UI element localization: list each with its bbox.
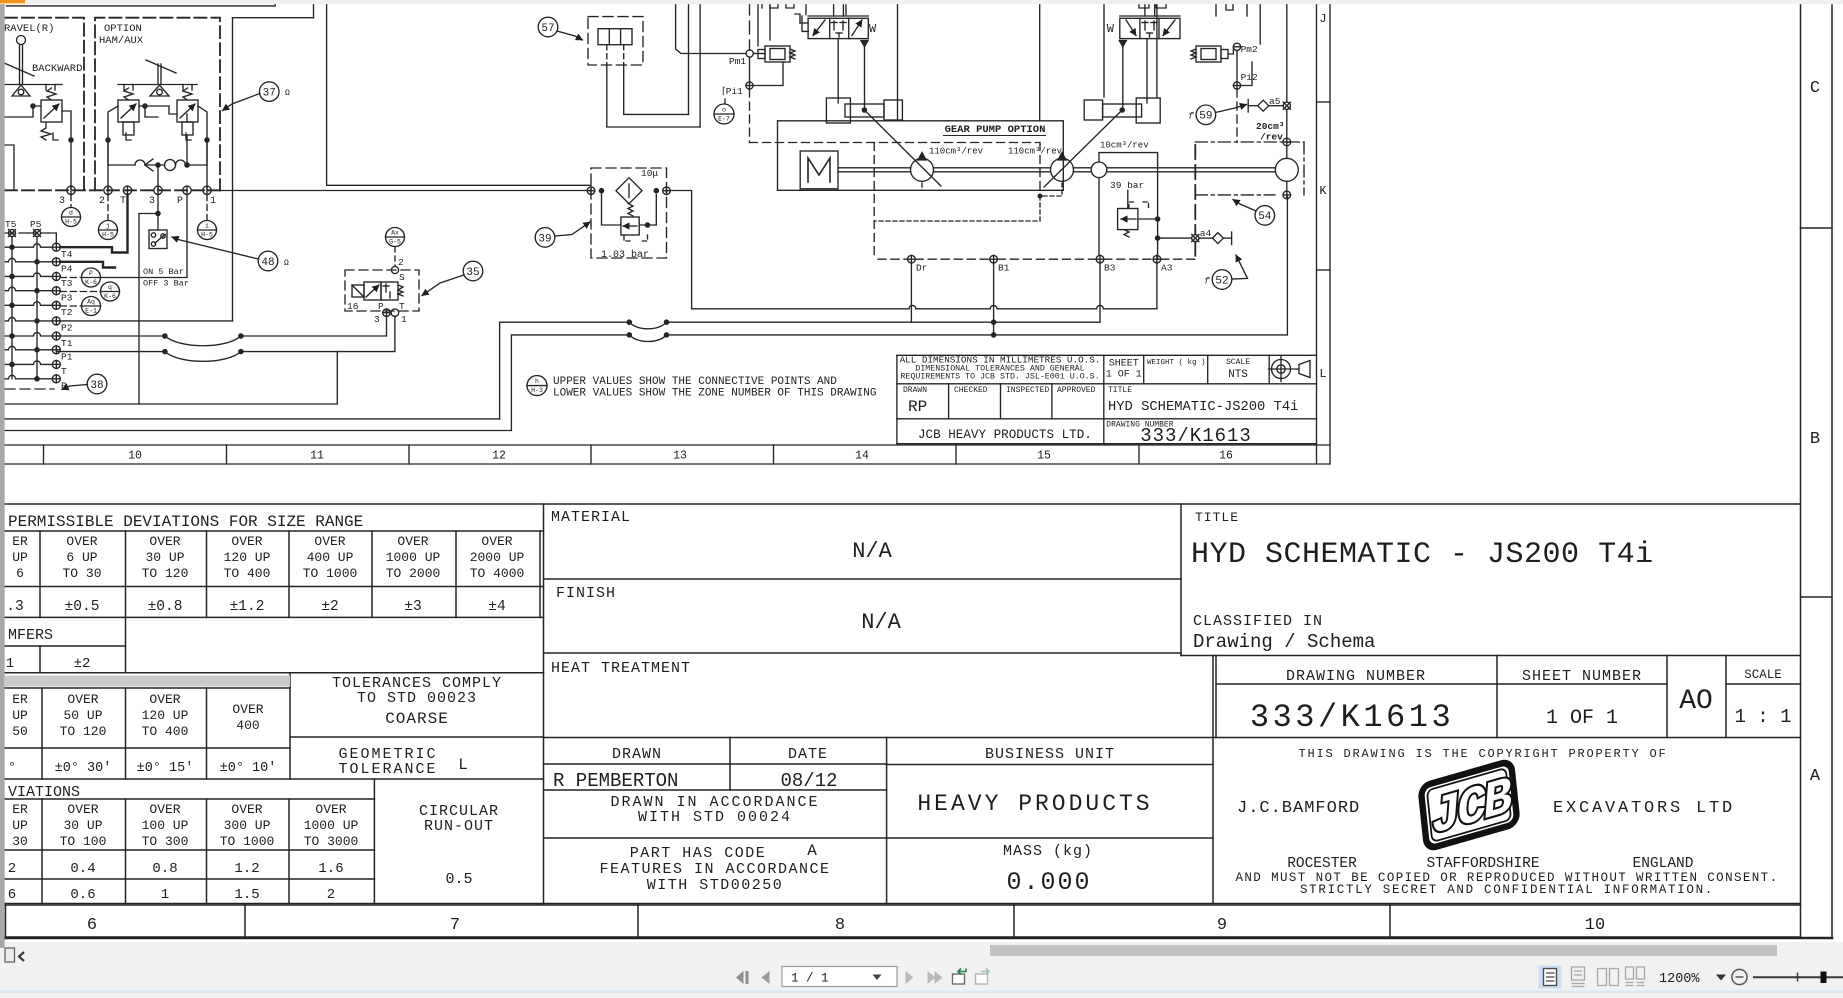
svg-text:±3: ±3 xyxy=(404,599,421,615)
port T xyxy=(123,186,131,194)
svg-text:FINISH: FINISH xyxy=(556,585,616,602)
svg-text:H-5: H-5 xyxy=(201,232,213,239)
svg-text:q: q xyxy=(108,284,112,291)
nav next xyxy=(906,971,914,984)
svg-text:E-7: E-7 xyxy=(718,116,730,123)
svg-text:LOWER VALUES SHOW THE ZONE NUM: LOWER VALUES SHOW THE ZONE NUMBER OF THI… xyxy=(553,388,876,400)
svg-text:G-5: G-5 xyxy=(389,239,401,246)
svg-text:16: 16 xyxy=(347,301,359,312)
svg-text:VIATIONS: VIATIONS xyxy=(8,784,80,801)
valve2 upper right fragments xyxy=(1216,2,1247,16)
port 2 xyxy=(104,186,112,194)
wire Pi2 elbow xyxy=(1241,62,1252,86)
swash link 1 xyxy=(864,110,941,186)
port 1 xyxy=(203,186,211,194)
leads below 57 block xyxy=(606,45,608,65)
svg-text:P: P xyxy=(61,381,67,392)
svg-text:0.6: 0.6 xyxy=(70,887,95,903)
wire relief to pump3 line xyxy=(1138,218,1158,220)
svg-text:B1: B1 xyxy=(998,263,1010,274)
A0 zone tick C|B xyxy=(1801,227,1833,229)
svg-text:3: 3 xyxy=(59,196,65,207)
dashed pilot line across xyxy=(750,142,1041,144)
svg-text:TITLE: TITLE xyxy=(1108,386,1132,395)
rail junction dots xyxy=(10,245,14,249)
valve2 top fragments xyxy=(1139,0,1166,8)
svg-text:TO STD 00023: TO STD 00023 xyxy=(357,690,477,707)
svg-text:1000 UP: 1000 UP xyxy=(304,818,359,833)
svg-text:±4: ±4 xyxy=(488,599,505,615)
svg-text:37: 37 xyxy=(263,88,276,100)
svg-text:20cm³: 20cm³ xyxy=(1256,121,1285,132)
svg-text:R PEMBERTON: R PEMBERTON xyxy=(553,770,678,792)
svg-text:j: j xyxy=(106,223,110,230)
lever OPTION xyxy=(146,60,176,73)
port Pm1 xyxy=(746,50,753,57)
svg-text:P1: P1 xyxy=(61,352,73,363)
charge pump circle xyxy=(1275,158,1298,181)
svg-text:OVER: OVER xyxy=(397,534,428,549)
svg-text:TITLE: TITLE xyxy=(1195,510,1239,525)
solenoid block 57 dashed box xyxy=(588,17,643,65)
callout circle 54 xyxy=(1255,206,1275,226)
svg-text:12: 12 xyxy=(492,450,506,463)
svg-text:TO 120: TO 120 xyxy=(142,566,189,581)
svg-text:10μ: 10μ xyxy=(641,168,658,179)
svg-text:ER: ER xyxy=(12,534,28,549)
svg-text:WITH STD 00024: WITH STD 00024 xyxy=(638,809,792,826)
charge pump port bottom xyxy=(1283,191,1291,199)
wire: P1 line to valve35 T xyxy=(56,351,165,353)
svg-text:57: 57 xyxy=(541,23,554,35)
svg-text:SHEET NUMBER: SHEET NUMBER xyxy=(1522,668,1642,685)
wire valve2 pilot to Pm2 xyxy=(1228,47,1233,54)
svg-text:OVER: OVER xyxy=(481,534,512,549)
schematic title block outline xyxy=(897,354,1317,356)
svg-text:±2: ±2 xyxy=(321,599,338,615)
svg-text:TO 1000: TO 1000 xyxy=(303,566,358,581)
svg-text:OVER: OVER xyxy=(149,692,180,707)
gear pump option box xyxy=(778,121,1064,191)
filter port left xyxy=(587,187,595,195)
svg-text:Pm1: Pm1 xyxy=(729,56,746,67)
svg-text:TO 120: TO 120 xyxy=(60,724,107,739)
svg-text:PERMISSIBLE DEVIATIONS FOR SIZ: PERMISSIBLE DEVIATIONS FOR SIZE RANGE xyxy=(8,513,363,531)
svg-text:110cm³/rev: 110cm³/rev xyxy=(1008,147,1063,157)
header column lines table1 xyxy=(39,531,41,617)
svg-text:1: 1 xyxy=(161,887,169,903)
svg-text:A: A xyxy=(1810,767,1821,786)
dashed box TRAVEL(R) xyxy=(5,18,84,191)
svg-text:EXCAVATORS LTD: EXCAVATORS LTD xyxy=(1553,799,1735,818)
table2 column lines xyxy=(41,688,43,779)
svg-text:1200%: 1200% xyxy=(1659,972,1700,987)
dashed pilot line Pi1 down xyxy=(749,89,751,142)
manifold rail T5 xyxy=(11,237,13,379)
svg-text:OVER: OVER xyxy=(67,692,98,707)
nav prev xyxy=(762,971,770,984)
svg-text:11: 11 xyxy=(310,450,324,463)
drawing number band xyxy=(1216,655,1801,657)
svg-text:59: 59 xyxy=(1199,111,1212,123)
svg-text:STAFFORDSHIRE: STAFFORDSHIRE xyxy=(1426,856,1539,872)
pressure switch 48 xyxy=(149,230,167,249)
return loop under 57 block xyxy=(607,65,700,127)
charge pump 20cm3 dash-dot box xyxy=(1195,141,1304,143)
callout circle 38 xyxy=(87,374,107,394)
servo piston 2 xyxy=(1136,98,1160,123)
svg-text:f: f xyxy=(1188,111,1194,122)
svg-text:6 UP: 6 UP xyxy=(66,550,97,565)
next view icon xyxy=(976,974,988,984)
filter diamond xyxy=(616,178,642,204)
svg-text:OPTION: OPTION xyxy=(104,23,142,35)
svg-text:HEAT TREATMENT: HEAT TREATMENT xyxy=(551,660,691,677)
lead to bubble i xyxy=(206,195,208,221)
directional valve 2 xyxy=(1120,18,1180,38)
schematic zone tick J|K xyxy=(1317,101,1331,103)
manifold bottom dashed xyxy=(5,388,54,390)
pump 2 xyxy=(1051,158,1074,181)
schematic content frame right verticals xyxy=(1156,0,1158,97)
svg-text:WITH STD00250: WITH STD00250 xyxy=(647,877,784,894)
svg-text:1 OF 1: 1 OF 1 xyxy=(1546,707,1618,730)
svg-text:.3: .3 xyxy=(6,599,23,615)
svg-text:SCALE: SCALE xyxy=(1226,358,1250,367)
schematic sheet right double border xyxy=(1316,4,1318,464)
svg-text:AO: AO xyxy=(1679,686,1713,717)
svg-text:OVER: OVER xyxy=(149,802,180,817)
pilot line above Pm1 dashed xyxy=(749,2,751,50)
bubble p/K-6 xyxy=(82,268,101,287)
wire: section vertical x=232.5 xyxy=(232,18,234,321)
pressure reducing valve 2 xyxy=(1196,46,1221,62)
nav last xyxy=(928,971,936,984)
svg-text:SHEET: SHEET xyxy=(1109,359,1139,370)
svg-text:16: 16 xyxy=(1219,450,1233,463)
wire port P down to y=277 xyxy=(101,195,188,278)
svg-text:N/A: N/A xyxy=(861,610,901,635)
valve1 top fragments xyxy=(762,2,794,8)
svg-text:REQUIREMENTS TO JCB STD. JSL-E: REQUIREMENTS TO JCB STD. JSL-E001 U.O.S. xyxy=(900,373,1099,382)
port T5 xyxy=(5,232,27,234)
port P5 xyxy=(27,232,48,234)
svg-text:35: 35 xyxy=(466,267,479,279)
svg-text:OVER: OVER xyxy=(315,802,346,817)
svg-text:HEAVY PRODUCTS: HEAVY PRODUCTS xyxy=(917,791,1152,817)
callout circle 57 xyxy=(538,17,558,37)
port A3 xyxy=(1153,255,1161,263)
relief valve 39bar xyxy=(1118,209,1138,230)
supply lines to Pm1 xyxy=(676,0,747,54)
svg-text:⌈Pi1: ⌈Pi1 xyxy=(722,86,743,97)
svg-text:W: W xyxy=(869,22,877,36)
filter bypass relief xyxy=(602,191,621,225)
svg-text:±0.8: ±0.8 xyxy=(148,599,183,615)
svg-text:E-1: E-1 xyxy=(85,308,97,315)
svg-text:CHECKED: CHECKED xyxy=(954,386,988,395)
wire B3 down xyxy=(1099,263,1101,322)
svg-text:0.4: 0.4 xyxy=(70,861,95,877)
svg-text:Dr: Dr xyxy=(916,263,927,274)
pump 1 xyxy=(911,158,934,181)
svg-text:48: 48 xyxy=(261,257,274,269)
valve 35 assembly xyxy=(386,228,405,247)
svg-text:TO 100: TO 100 xyxy=(60,834,107,849)
svg-text:MATERIAL: MATERIAL xyxy=(551,509,631,526)
svg-text:8: 8 xyxy=(835,916,845,935)
port Pi1 xyxy=(746,82,753,89)
svg-text:K-6: K-6 xyxy=(85,279,97,286)
svg-text:TO 4000: TO 4000 xyxy=(470,566,525,581)
svg-text:50 UP: 50 UP xyxy=(63,708,102,723)
svg-text:52: 52 xyxy=(1215,275,1228,287)
heavy wire T4 to port T xyxy=(60,195,127,253)
svg-text:TO 1000: TO 1000 xyxy=(220,834,275,849)
svg-text:1.6: 1.6 xyxy=(318,861,343,877)
svg-text:333/K1613: 333/K1613 xyxy=(1250,699,1454,736)
svg-text:2: 2 xyxy=(398,257,404,268)
svg-text:THIS DRAWING IS THE COPYRIGHT: THIS DRAWING IS THE COPYRIGHT PROPERTY O… xyxy=(1298,747,1667,761)
port 3 xyxy=(154,186,162,194)
svg-text:13: 13 xyxy=(673,450,687,463)
svg-text:FEATURES IN ACCORDANCE: FEATURES IN ACCORDANCE xyxy=(599,861,830,878)
tolerances comply box mid line xyxy=(290,736,544,738)
pump1 drain dashes xyxy=(921,183,923,190)
svg-text:39: 39 xyxy=(538,233,551,245)
svg-text:OVER: OVER xyxy=(66,534,97,549)
svg-text:HYD SCHEMATIC - JS200 T4i: HYD SCHEMATIC - JS200 T4i xyxy=(1191,538,1654,572)
dashed box OPTION HAM/AUX xyxy=(95,18,220,191)
hose hop upper xyxy=(627,320,631,324)
motor M letter xyxy=(808,158,830,182)
pressure reducing valve 1 xyxy=(765,46,790,62)
svg-text:ER: ER xyxy=(12,692,28,707)
svg-text:SCALE: SCALE xyxy=(1744,668,1782,682)
svg-text:ER: ER xyxy=(12,802,28,817)
svg-text:T1: T1 xyxy=(61,338,73,349)
bubble j/H-5 xyxy=(99,221,118,240)
table3 column lines xyxy=(41,799,43,904)
option pilot valve left xyxy=(118,100,139,122)
orifice a4 xyxy=(1192,235,1199,242)
svg-text:MFERS: MFERS xyxy=(8,627,53,644)
callout circle 48 xyxy=(258,251,278,271)
svg-text:6: 6 xyxy=(16,566,24,581)
svg-text:39 bar: 39 bar xyxy=(1110,180,1144,191)
svg-text:RP: RP xyxy=(908,398,927,416)
svg-text:±0° 10': ±0° 10' xyxy=(220,761,277,776)
svg-text:°: ° xyxy=(8,760,16,776)
spring travel valve xyxy=(47,88,56,100)
svg-text:COARSE: COARSE xyxy=(385,710,449,728)
svg-text:Ax: Ax xyxy=(391,230,399,237)
svg-text:Drawing / Schema: Drawing / Schema xyxy=(1193,631,1375,653)
port Pm2 xyxy=(1233,43,1240,50)
svg-text:H-3: H-3 xyxy=(531,387,543,394)
svg-text:T: T xyxy=(120,196,126,207)
svg-text:1 : 1: 1 : 1 xyxy=(1734,706,1791,728)
svg-text:2: 2 xyxy=(99,196,105,207)
lever TRAVEL xyxy=(17,36,26,45)
svg-text:BACKWARD: BACKWARD xyxy=(32,63,82,75)
svg-text:08/12: 08/12 xyxy=(780,770,837,792)
check ball a5 xyxy=(1258,100,1269,111)
bubble q/K-6 xyxy=(101,282,120,301)
svg-text:H-5: H-5 xyxy=(65,219,77,226)
wire: drain vertical x=139 xyxy=(139,214,158,405)
svg-text:P2: P2 xyxy=(61,323,73,334)
svg-text:0.000: 0.000 xyxy=(1006,868,1091,897)
svg-text:CLASSIFIED IN: CLASSIFIED IN xyxy=(1193,613,1323,630)
svg-text:OFF 3 Bar: OFF 3 Bar xyxy=(143,279,189,289)
view mode icons xyxy=(1539,966,1562,989)
svg-text:OVER: OVER xyxy=(314,534,345,549)
svg-text:K-6: K-6 xyxy=(104,293,116,300)
svg-text:HAM/AUX: HAM/AUX xyxy=(99,35,144,47)
dashed pilot Pi2 down xyxy=(1236,89,1238,142)
lead to bubble j xyxy=(107,195,109,221)
svg-text:30 UP: 30 UP xyxy=(63,818,102,833)
svg-text:h: h xyxy=(535,378,539,385)
svg-text:RUN-OUT: RUN-OUT xyxy=(424,818,494,835)
port T1 xyxy=(52,332,60,340)
option pilot valve right xyxy=(177,100,198,122)
svg-text:INSPECTED: INSPECTED xyxy=(1006,386,1049,395)
svg-text:30: 30 xyxy=(12,834,28,849)
svg-text:S: S xyxy=(399,272,405,283)
svg-text:A3: A3 xyxy=(1161,263,1173,274)
svg-text:J.C.BAMFORD: J.C.BAMFORD xyxy=(1237,799,1360,818)
svg-text:1: 1 xyxy=(210,196,216,207)
wire Pi1 to reducing valve 1 xyxy=(753,62,783,86)
svg-text:H-5: H-5 xyxy=(102,232,114,239)
svg-text:1.03 bar: 1.03 bar xyxy=(601,249,649,261)
svg-text:ON 5 Bar: ON 5 Bar xyxy=(143,267,184,277)
wire: bottom return y=418.9 xyxy=(5,418,500,420)
port Pi2 xyxy=(1233,82,1240,89)
check ball a4 xyxy=(1212,233,1223,244)
sidebar handle xyxy=(5,948,15,962)
orifice a5 xyxy=(1283,102,1290,109)
svg-text:i: i xyxy=(205,223,209,230)
svg-text:±0.5: ±0.5 xyxy=(65,599,100,615)
wire port3 to switch xyxy=(157,195,159,231)
bubble d/H-5 xyxy=(62,208,81,227)
valve2 pilot leads xyxy=(1122,47,1124,110)
svg-text:300 UP: 300 UP xyxy=(224,818,271,833)
svg-text:T5: T5 xyxy=(5,219,17,230)
port P xyxy=(52,375,60,383)
svg-text:Aq: Aq xyxy=(87,299,95,306)
lead Pm1-Pi1 xyxy=(749,57,751,82)
material column lines xyxy=(544,578,1182,580)
svg-text:6: 6 xyxy=(87,916,97,935)
svg-text:TOLERANCE: TOLERANCE xyxy=(338,761,437,778)
svg-text:10: 10 xyxy=(1585,916,1605,935)
svg-text:GEAR PUMP OPTION: GEAR PUMP OPTION xyxy=(945,124,1046,136)
page box xyxy=(782,967,897,987)
svg-text:10cm³/rev: 10cm³/rev xyxy=(1100,141,1149,151)
A0 sheet right double border xyxy=(1800,4,1802,938)
svg-text:TO 30: TO 30 xyxy=(62,566,101,581)
directional valve 1 xyxy=(808,18,868,38)
port P3 xyxy=(52,287,60,295)
svg-text:B: B xyxy=(1810,430,1820,449)
spring option valve left xyxy=(124,88,133,100)
port Dr xyxy=(908,255,916,263)
dashed lead P3-Aq bubble xyxy=(60,305,81,307)
callout circle 59 xyxy=(1196,105,1216,125)
heavy wire P4 elbow xyxy=(60,262,115,268)
svg-text:120 UP: 120 UP xyxy=(142,708,189,723)
motor M box xyxy=(800,151,838,189)
hose hop lower xyxy=(627,333,631,337)
wire: T1 line to valve35 P xyxy=(56,335,165,337)
port P xyxy=(183,186,191,194)
wire: pilot return line L1 (port1 to filter to A3) xyxy=(207,190,591,192)
port P2 xyxy=(52,317,60,325)
svg-text:UP: UP xyxy=(12,818,28,833)
svg-text:TO 300: TO 300 xyxy=(142,834,189,849)
svg-text:OVER: OVER xyxy=(231,534,262,549)
wire trunk x=1286.8 xyxy=(1286,0,1288,102)
svg-text:7: 7 xyxy=(450,916,460,935)
A0 bottom zone row top line xyxy=(5,904,1801,906)
svg-text:0.8: 0.8 xyxy=(152,861,177,877)
port T4 xyxy=(52,243,60,251)
svg-text:A: A xyxy=(807,842,817,860)
filter port right xyxy=(663,187,671,195)
svg-text:P5: P5 xyxy=(30,219,42,230)
svg-text:L: L xyxy=(1319,367,1326,381)
svg-text:15: 15 xyxy=(1037,450,1051,463)
svg-text:UP: UP xyxy=(12,550,28,565)
filter 39 dashed box xyxy=(591,168,667,258)
svg-text:a5: a5 xyxy=(1269,96,1281,107)
port T2 xyxy=(52,301,60,309)
svg-text:DRAWN: DRAWN xyxy=(903,386,927,395)
dashed lead P4-p bubble xyxy=(60,277,81,279)
lead Pm2-Pi2 xyxy=(1236,50,1238,82)
svg-text:K: K xyxy=(1319,184,1327,198)
spring option valve right xyxy=(183,88,192,100)
manifold rail P5 xyxy=(36,237,38,379)
bubble h/H-3 xyxy=(527,376,547,396)
wires option valves xyxy=(108,106,118,190)
lead to bubble d xyxy=(70,195,72,208)
A0 sheet bottom border xyxy=(5,937,1832,940)
svg-text:OVER: OVER xyxy=(232,702,263,717)
svg-text:50: 50 xyxy=(12,724,28,739)
svg-text:1: 1 xyxy=(401,314,407,325)
svg-text:T4: T4 xyxy=(61,249,73,260)
svg-text:T3: T3 xyxy=(61,278,73,289)
callout circle 39 xyxy=(535,228,555,248)
port B3 xyxy=(1096,255,1104,263)
servo piston 1 xyxy=(826,98,850,123)
left block right edge xyxy=(543,504,545,904)
port B1 xyxy=(990,255,998,263)
schematic zone tick K|L xyxy=(1317,269,1331,271)
svg-text:P3: P3 xyxy=(61,293,73,304)
solenoid block 57 body xyxy=(598,29,632,45)
svg-text:6: 6 xyxy=(8,887,16,903)
svg-text:9: 9 xyxy=(1217,916,1227,935)
svg-text:ROCESTER: ROCESTER xyxy=(1287,856,1357,872)
wire T5/P5 right elbow xyxy=(48,233,56,243)
svg-text:110cm³/rev: 110cm³/rev xyxy=(929,147,984,157)
